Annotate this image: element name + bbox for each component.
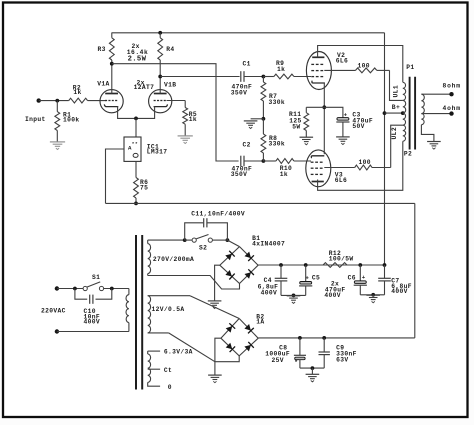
svg-text:100: 100 <box>358 63 370 70</box>
wire B2 ac return <box>215 356 239 362</box>
wire V1B grid <box>167 100 186 102</box>
svg-text:**: ** <box>132 142 138 148</box>
svg-text:400V: 400V <box>391 288 408 295</box>
diode B1 D2 <box>245 252 254 261</box>
resistor R4 <box>158 31 175 77</box>
node R4 bottom <box>158 75 162 79</box>
resistor R7 <box>261 77 285 119</box>
220VAC terminals <box>41 286 66 333</box>
svg-text:P2: P2 <box>404 150 412 157</box>
ground R5 <box>178 136 193 144</box>
wire C4C5 gnd <box>281 294 306 298</box>
resistor R5 <box>183 101 197 136</box>
tube V1A <box>97 81 123 113</box>
svg-text:12V/0.5A: 12V/0.5A <box>152 306 185 313</box>
svg-text:C5: C5 <box>312 275 320 282</box>
svg-text:400V: 400V <box>261 290 278 297</box>
ground B1 <box>208 301 222 309</box>
ground secondary <box>427 142 441 150</box>
node R3 bottom <box>110 62 114 66</box>
transformer secondary coil <box>421 94 424 125</box>
tube V1B <box>149 82 177 113</box>
node C4 <box>279 263 283 267</box>
svg-text:4xIN4007: 4xIN4007 <box>252 241 285 248</box>
label 2x470uF <box>324 281 345 299</box>
svg-text:330k: 330k <box>269 99 286 106</box>
svg-text:Input: Input <box>25 116 46 123</box>
wire C6C7 gnd <box>360 293 384 297</box>
wire V1B plate <box>159 77 161 94</box>
wire V1A plate <box>111 64 113 94</box>
svg-text:100/5W: 100/5W <box>329 256 354 263</box>
svg-text:V1B: V1B <box>164 82 176 89</box>
svg-text:UL2: UL2 <box>391 127 398 140</box>
node C1 out <box>262 75 266 79</box>
resistor R11 <box>289 107 324 137</box>
wire negative rail <box>106 203 415 338</box>
node C8 <box>298 336 302 340</box>
node C2 out <box>262 159 266 163</box>
capacitor C11 <box>185 211 245 241</box>
capacitor C4 <box>258 265 288 297</box>
capacitor C10 <box>75 289 112 326</box>
diode B2 D2 <box>244 324 253 333</box>
wire V3 plate to P2 <box>318 141 403 190</box>
capacitor C9 <box>319 338 357 368</box>
node C9 <box>322 336 326 340</box>
svg-text:100k: 100k <box>63 116 80 123</box>
node cathodes <box>134 117 138 138</box>
wire 270V bottom <box>148 276 240 290</box>
diode B2 D3 <box>226 343 235 352</box>
svg-text:C11,10nF/400V: C11,10nF/400V <box>191 211 245 218</box>
transformer primary coil <box>403 82 406 141</box>
top rail B+ <box>112 32 385 34</box>
wire IC1 adj <box>106 149 125 203</box>
wire 8ohm <box>421 82 460 96</box>
node C7 <box>383 263 387 267</box>
wire 220 top <box>57 288 129 290</box>
capacitor C3 <box>324 107 373 137</box>
svg-text:25V: 25V <box>272 357 284 364</box>
diode B1 D1 <box>225 251 234 260</box>
label Input <box>25 116 46 123</box>
svg-text:1k: 1k <box>280 171 288 178</box>
diode B1 D3 <box>225 270 234 280</box>
svg-text:6L6: 6L6 <box>335 177 347 184</box>
ground B2 <box>208 375 222 383</box>
resistor 100 V2 screen <box>324 63 389 73</box>
svg-text:S1: S1 <box>92 274 100 281</box>
node cathode junction <box>322 105 326 109</box>
label 2x 12AT7 <box>134 79 155 91</box>
resistor R10 <box>263 159 311 179</box>
svg-text:350V: 350V <box>231 171 248 178</box>
svg-text:5W: 5W <box>292 124 300 131</box>
svg-text:220VAC: 220VAC <box>41 308 66 315</box>
svg-text:2.5W: 2.5W <box>128 55 147 63</box>
wire 4ohm <box>421 105 460 116</box>
ground C3 <box>336 137 350 145</box>
svg-text:6.3V/3A: 6.3V/3A <box>164 348 193 355</box>
wire C8C9 gnd <box>300 366 324 370</box>
label UL2 <box>391 127 398 140</box>
capacitor C1 <box>231 61 264 97</box>
ground C4C5 <box>287 296 301 304</box>
svg-text:1k: 1k <box>277 66 285 73</box>
node R6 bottom <box>134 202 138 206</box>
node C6 <box>358 263 362 267</box>
wire V2 plate to P1 <box>318 46 403 83</box>
wire B+ drop <box>384 33 386 265</box>
svg-text:P1: P1 <box>406 64 414 71</box>
power transformer core <box>136 235 142 390</box>
wire UL2 tap <box>391 125 403 167</box>
wire secondary return <box>421 125 434 142</box>
resistor R3 <box>98 33 115 64</box>
svg-text:LM317: LM317 <box>147 149 168 156</box>
bridge B2 diamond <box>221 313 265 356</box>
winding 12V <box>148 296 185 333</box>
capacitor C7 <box>378 265 412 295</box>
wire 220 bottom <box>57 331 129 333</box>
svg-text:8ohm: 8ohm <box>443 82 461 89</box>
ground R11 <box>300 137 314 145</box>
svg-text:50V: 50V <box>352 123 364 130</box>
power primary coil <box>126 289 129 332</box>
node input <box>55 99 59 103</box>
wire 12V top <box>148 296 240 319</box>
resistor R1 <box>55 101 80 142</box>
wire DC+ line <box>258 264 384 266</box>
svg-text:*: * <box>294 359 298 366</box>
svg-text:+: + <box>362 274 366 281</box>
switch S1 <box>73 274 114 291</box>
svg-text:6L6: 6L6 <box>336 57 348 64</box>
capacitor C5 <box>299 265 320 295</box>
svg-text:+: + <box>344 112 348 119</box>
resistor R12 <box>323 250 353 268</box>
wire V1A cathode <box>118 106 155 118</box>
svg-text:100: 100 <box>359 159 371 166</box>
capacitor C2 <box>231 142 264 179</box>
wire UL1 tap <box>390 70 403 100</box>
svg-text:S2: S2 <box>199 245 207 252</box>
resistor R9 <box>263 60 311 79</box>
resistor R6 <box>134 161 149 203</box>
ground R7R8 <box>244 121 258 129</box>
ground R1 <box>50 142 65 150</box>
svg-text:1k: 1k <box>189 116 197 123</box>
svg-text:C6: C6 <box>348 274 356 281</box>
svg-text:350V: 350V <box>231 89 248 96</box>
label P1 <box>406 64 414 71</box>
wire V1A plate to C2 <box>112 64 239 161</box>
switch S2 <box>183 235 230 252</box>
label 2x 16.4k 2.5W <box>127 43 149 63</box>
input terminal <box>37 98 69 102</box>
diode B1 D4 <box>245 269 254 278</box>
wire gnd stub <box>311 368 313 374</box>
wire 270V top <box>148 239 185 241</box>
winding 6.3V <box>148 348 193 391</box>
diode B2 D4 <box>244 342 253 352</box>
wire B1 minus <box>215 265 220 301</box>
resistor 100 V3 screen <box>324 159 390 170</box>
svg-text:Ct: Ct <box>164 367 172 374</box>
svg-text:270V/200mA: 270V/200mA <box>153 256 194 263</box>
diode B2 D1 <box>226 323 236 332</box>
wire S2 to B1 <box>227 240 239 247</box>
svg-text:+: + <box>305 275 309 282</box>
svg-text:400V: 400V <box>324 292 341 299</box>
wire C1 line <box>160 76 239 78</box>
tube V3 6L6 <box>306 150 347 187</box>
svg-text:C1: C1 <box>243 61 251 68</box>
tube V2 6L6 <box>306 52 348 90</box>
capacitor C6 <box>348 265 367 295</box>
label UL1 <box>393 85 400 98</box>
svg-text:C2: C2 <box>243 142 251 149</box>
svg-text:4ohm: 4ohm <box>443 105 461 112</box>
svg-text:R3: R3 <box>98 46 106 53</box>
node R7 R8 <box>251 117 266 121</box>
wire 12V bottom <box>148 333 215 362</box>
capacitor C8 <box>265 338 306 368</box>
node C5 <box>304 263 308 267</box>
svg-text:1k: 1k <box>73 89 81 96</box>
transformer core <box>410 77 416 150</box>
wire shared cathode <box>323 83 325 154</box>
wire B2 minus <box>215 338 221 375</box>
svg-text:0: 0 <box>168 384 172 391</box>
svg-text:1A: 1A <box>256 319 264 326</box>
svg-text:75: 75 <box>140 185 148 192</box>
svg-text:V1A: V1A <box>97 81 109 88</box>
bridge B1 diamond <box>220 235 285 284</box>
svg-text:400V: 400V <box>84 319 101 326</box>
winding 270V <box>148 240 194 275</box>
resistor R2 <box>69 85 106 103</box>
svg-text:330k: 330k <box>269 141 286 148</box>
svg-text:B+: B+ <box>392 104 400 111</box>
svg-text:R4: R4 <box>166 46 174 53</box>
label P2 <box>404 150 412 157</box>
ground C8C9 <box>306 374 320 382</box>
svg-text:12AT7: 12AT7 <box>134 84 155 91</box>
resistor R8 <box>261 119 285 161</box>
svg-text:UL1: UL1 <box>393 85 400 98</box>
ground C6C7 <box>366 295 380 303</box>
svg-text:63V: 63V <box>336 357 348 364</box>
wire 12V DC line <box>258 337 415 339</box>
node B+ tap <box>383 111 405 115</box>
label B+ <box>392 104 400 111</box>
op-amp IC1 LM317 box <box>124 137 167 161</box>
